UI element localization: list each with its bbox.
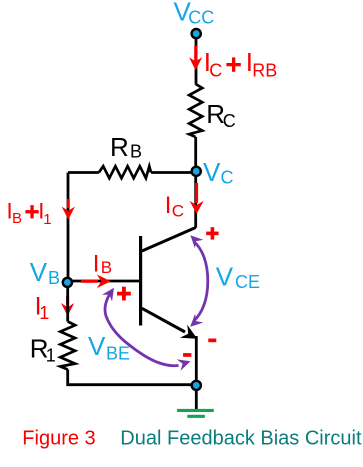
minus sign VBE	[183, 353, 191, 357]
svg-text:C: C	[172, 202, 184, 221]
node VCC terminal dot	[192, 29, 201, 38]
current arrow IC+IRB	[189, 46, 202, 71]
svg-text:1: 1	[43, 211, 51, 228]
wire RC to collector corner	[194, 137, 197, 228]
node VB	[63, 278, 72, 287]
label R1	[30, 334, 56, 366]
svg-text:CE: CE	[235, 272, 260, 292]
svg-text:B: B	[48, 268, 60, 288]
label VCE	[216, 262, 260, 293]
current arrow IC	[190, 183, 204, 214]
svg-text:B: B	[12, 210, 22, 227]
label RB	[110, 132, 142, 162]
svg-text:1: 1	[46, 345, 56, 365]
svg-text:Figure 3: Figure 3	[22, 428, 95, 450]
svg-text:B: B	[130, 142, 142, 162]
wire left rail down to VB	[67, 173, 70, 283]
label IC	[165, 192, 184, 221]
transistor collector line	[142, 228, 196, 252]
label IB	[93, 250, 112, 277]
current arrow IB	[81, 275, 111, 289]
minus sign VCE	[208, 339, 216, 343]
transistor emitter line with arrow	[142, 308, 185, 332]
resistor RC	[189, 84, 202, 137]
resistor RB	[99, 166, 151, 178]
wire VCC to RC	[195, 38, 198, 84]
label IB+I1	[7, 198, 52, 228]
label I1	[35, 292, 50, 323]
current arrow IB+I1	[62, 199, 75, 220]
VBE arc	[105, 294, 179, 366]
svg-text:B: B	[101, 258, 112, 277]
svg-text:V: V	[203, 157, 221, 187]
svg-text:I: I	[165, 192, 172, 219]
svg-text:RB: RB	[252, 61, 277, 81]
VCE arc arrowhead bottom	[190, 314, 203, 327]
label RC	[206, 99, 236, 131]
base wire VB to transistor	[68, 280, 140, 283]
svg-text:V: V	[216, 262, 234, 292]
label VC	[203, 157, 234, 188]
ground symbol	[177, 409, 214, 418]
transistor Q1 base bar	[139, 236, 142, 326]
wire RB to node VC	[151, 171, 196, 174]
wire emitter down to node	[195, 336, 198, 409]
svg-text:Dual Feedback Bias Circuit: Dual Feedback Bias Circuit	[120, 428, 362, 450]
wire top-left horizontal to RB	[68, 171, 99, 174]
wire VB to R1	[66, 282, 69, 321]
node emitter/ground junction	[192, 381, 201, 390]
label VB	[30, 257, 60, 288]
plus sign at collector (VCE +)	[206, 227, 218, 239]
svg-text:R: R	[110, 132, 129, 162]
node VC	[192, 167, 201, 176]
svg-text:V: V	[30, 257, 48, 287]
svg-text:CC: CC	[188, 8, 214, 28]
VCE arc	[194, 242, 208, 321]
svg-text:C: C	[221, 168, 234, 188]
wire R1 to bottom rail	[68, 370, 197, 385]
svg-text:V: V	[88, 331, 106, 361]
svg-text:BE: BE	[106, 344, 130, 364]
svg-text:C: C	[209, 61, 222, 81]
current arrow I1	[61, 296, 74, 316]
VBE arc arrowhead top	[102, 288, 114, 302]
plus sign at base	[117, 287, 131, 301]
VCE arc arrowhead top	[190, 235, 203, 248]
resistor R1	[60, 322, 75, 370]
svg-text:I: I	[93, 250, 100, 277]
VBE arc arrowhead bottom	[177, 359, 191, 370]
label VBE	[88, 331, 130, 364]
label IC + IRB	[204, 47, 278, 81]
svg-text:1: 1	[39, 303, 49, 323]
svg-text:C: C	[223, 111, 236, 131]
VCC supply label	[174, 0, 215, 28]
